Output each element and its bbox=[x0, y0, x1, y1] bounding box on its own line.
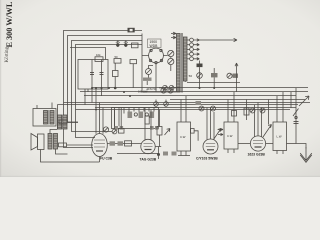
wire box1 top pins bbox=[181, 96, 186, 156]
fuse F1 bbox=[128, 28, 135, 33]
wire winding stub bbox=[184, 81, 186, 82]
wire box2 to V4 bbox=[238, 143, 250, 145]
wire bus L3 bbox=[72, 41, 143, 132]
tap selector S1 row4 bbox=[187, 52, 199, 56]
wire riser lamp bbox=[159, 65, 180, 88]
coupling chain wire bbox=[107, 143, 141, 145]
electrolytic C22 bbox=[154, 100, 159, 107]
bus H2 bbox=[80, 91, 308, 93]
capacitor C4 bbox=[100, 60, 104, 90]
svg-text:C.W: C.W bbox=[180, 135, 186, 139]
transformer T1 enclosure bbox=[142, 34, 176, 93]
tuning box bbox=[78, 60, 108, 90]
electrolytic C7 bbox=[189, 73, 203, 79]
resistor R7 bbox=[59, 120, 78, 124]
wire V1 bottom bbox=[99, 157, 101, 163]
arrows into box2 bbox=[218, 128, 223, 135]
wire box2 top pins bbox=[228, 92, 234, 122]
wire rectifier cathode bbox=[142, 56, 168, 93]
contact b2 bbox=[145, 113, 148, 116]
wire screen lid bbox=[70, 48, 106, 60]
bus H4 bbox=[170, 99, 305, 101]
lamp La4 bbox=[161, 88, 166, 93]
junction dots bus bbox=[91, 87, 215, 111]
svg-text:50: 50 bbox=[115, 55, 119, 59]
wire box3 out bbox=[287, 143, 297, 145]
wire riser mid bbox=[115, 100, 167, 125]
antenna arrow bbox=[299, 96, 309, 106]
trimmer C9 bbox=[112, 124, 117, 134]
wire V4 top pins bbox=[255, 103, 262, 137]
wire bus L2 bbox=[68, 36, 143, 123]
wire under box1 bbox=[178, 155, 190, 157]
resistor R2 bbox=[114, 55, 121, 63]
resistor R12 bbox=[110, 141, 116, 145]
electrolytic C12 bbox=[199, 106, 204, 111]
band switch box bbox=[112, 108, 159, 129]
capacitor C6 bbox=[197, 61, 203, 83]
resistor R16 bbox=[196, 101, 202, 105]
resistor R17 bbox=[244, 100, 249, 121]
resistor R10 bbox=[139, 112, 144, 119]
wire T2 to bus bbox=[37, 103, 52, 109]
wire bus L4 bbox=[76, 45, 143, 138]
rectifier tube U1 bbox=[149, 48, 164, 64]
wire V4 to box3 bbox=[266, 143, 273, 145]
svg-text:10k: 10k bbox=[96, 53, 101, 57]
node A bbox=[114, 87, 117, 90]
resistor R13 bbox=[118, 141, 124, 145]
wire box3 bottom pins bbox=[277, 151, 283, 155]
capacitor C10 bbox=[119, 124, 125, 133]
output transformer T2 bbox=[33, 109, 56, 127]
lamp La6 bbox=[163, 85, 168, 90]
wire bus L1 top bbox=[64, 31, 143, 148]
lamp La3 bbox=[146, 69, 152, 75]
arrow up node B bbox=[235, 63, 238, 83]
svg-text:100 ΩW: 100 ΩW bbox=[138, 90, 148, 94]
wire riser left column bbox=[57, 105, 59, 130]
tube V2 bbox=[141, 136, 155, 154]
bus H6 bbox=[58, 104, 299, 106]
AGC arrow V4 bbox=[263, 125, 272, 138]
bus H7 bbox=[95, 107, 296, 109]
resistor R9 bbox=[128, 112, 133, 119]
svg-text:FU C3B: FU C3B bbox=[100, 157, 113, 161]
tube V3 bbox=[203, 136, 218, 154]
svg-text:E 300 W/WL: E 300 W/WL bbox=[5, 1, 14, 47]
relay K1 bbox=[132, 43, 139, 48]
tube V1 bbox=[92, 130, 108, 157]
capacitor C21 bbox=[172, 152, 177, 156]
electrolytic C13 bbox=[211, 106, 216, 111]
wire under T1 bbox=[187, 82, 240, 84]
wire V3 top pins bbox=[207, 108, 214, 140]
mains lead wire bbox=[200, 38, 238, 41]
svg-text:C/Y103 5W3B: C/Y103 5W3B bbox=[196, 157, 218, 161]
electrolytic C8 bbox=[227, 73, 232, 78]
contact row lower bbox=[115, 126, 159, 130]
field coil L6 bbox=[48, 134, 58, 150]
svg-text:1623 G23B: 1623 G23B bbox=[248, 153, 266, 157]
lamp La7 bbox=[169, 85, 174, 90]
wire lamp chain bbox=[147, 57, 171, 85]
capacitor C3 bbox=[90, 60, 94, 90]
T1 core bbox=[181, 33, 182, 93]
wire box2 bottom pins bbox=[228, 149, 234, 153]
svg-text:TAG G23B: TAG G23B bbox=[140, 158, 157, 162]
lamp La5 bbox=[168, 88, 173, 93]
capacitor C5 bbox=[113, 63, 119, 88]
choke R6 bbox=[58, 115, 68, 129]
electrolytic C17 bbox=[279, 108, 284, 113]
resistor R15 bbox=[157, 110, 162, 147]
electrolytic C15 bbox=[250, 108, 255, 113]
right column wire bbox=[295, 88, 297, 144]
wire box3 top pins bbox=[277, 92, 283, 122]
resistor R18 bbox=[145, 116, 149, 124]
wire stub C6 down bbox=[200, 82, 215, 88]
resistor R5 bbox=[233, 74, 239, 78]
IF transformer box2 bbox=[224, 122, 238, 149]
ground bbox=[300, 147, 312, 162]
trimmer arrow S2 bbox=[165, 129, 171, 136]
wire field coil bbox=[50, 130, 68, 155]
wire riser right bbox=[269, 92, 292, 125]
wire risers band area bbox=[85, 89, 102, 110]
electrolytic C16 bbox=[260, 108, 265, 113]
rectifier U1 label bbox=[148, 39, 162, 48]
coil L5 bbox=[130, 60, 137, 89]
trimmer C2 bbox=[124, 41, 128, 48]
wire cathode line V1-V2 bbox=[117, 153, 159, 155]
svg-text:C.W: C.W bbox=[227, 134, 233, 138]
resistor R14 bbox=[125, 141, 132, 146]
wire speaker bottom bbox=[41, 150, 100, 163]
svg-text:Körting: Körting bbox=[5, 46, 10, 62]
T1 secondary winding bbox=[183, 37, 187, 81]
bus H5 bbox=[64, 102, 311, 104]
arrow into T1 primary lower bbox=[171, 36, 176, 39]
speaker LS bbox=[31, 134, 44, 151]
node V2 cathode bbox=[155, 147, 161, 160]
svg-text:L.W: L.W bbox=[277, 135, 282, 139]
resistor R1 bbox=[95, 53, 103, 61]
wire box1 tab to V3 bbox=[194, 131, 198, 141]
tap selector S1 row1 bbox=[187, 38, 199, 42]
resistor R3 bbox=[143, 78, 152, 81]
resistor R8 bbox=[59, 143, 94, 147]
arrow into T1 primary upper bbox=[171, 32, 176, 35]
switch contact row bbox=[115, 108, 155, 127]
contact b1 bbox=[134, 113, 137, 116]
electrolytic C18 bbox=[290, 109, 292, 111]
bus H3 bbox=[84, 95, 296, 97]
switch S3 bbox=[293, 109, 299, 119]
lamp La1 bbox=[168, 50, 174, 56]
IF transformer box3 bbox=[273, 122, 287, 151]
T1 primary winding bbox=[177, 34, 181, 93]
tap selector S1 row2 bbox=[187, 43, 199, 47]
wire to ground bbox=[296, 144, 306, 149]
wire riser node B bbox=[236, 82, 238, 92]
tap selector S1 row3 bbox=[187, 48, 199, 52]
trimmer C1 bbox=[116, 41, 120, 48]
IF transformer box1 bbox=[177, 122, 194, 151]
svg-text:50: 50 bbox=[189, 74, 193, 78]
bus H8 bbox=[76, 109, 291, 111]
lamp La2 bbox=[168, 58, 174, 64]
svg-text:WDB: WDB bbox=[150, 44, 159, 48]
wire V2 top pins bbox=[145, 108, 151, 137]
tap selector S1 row5 bbox=[187, 57, 199, 61]
resistor R11 bbox=[150, 112, 155, 119]
trimmer C11 bbox=[103, 127, 108, 132]
resistor R4 bbox=[211, 68, 218, 82]
bus H1 bbox=[92, 88, 308, 90]
capacitor C19 bbox=[294, 122, 299, 124]
electrolytic C23 bbox=[164, 100, 169, 107]
capacitor C20 bbox=[163, 152, 168, 156]
tube V4 bbox=[250, 133, 265, 151]
capacitor C14 bbox=[232, 111, 237, 117]
wire V1 top pins bbox=[96, 103, 103, 134]
AGC arrow V3 bbox=[214, 129, 222, 140]
